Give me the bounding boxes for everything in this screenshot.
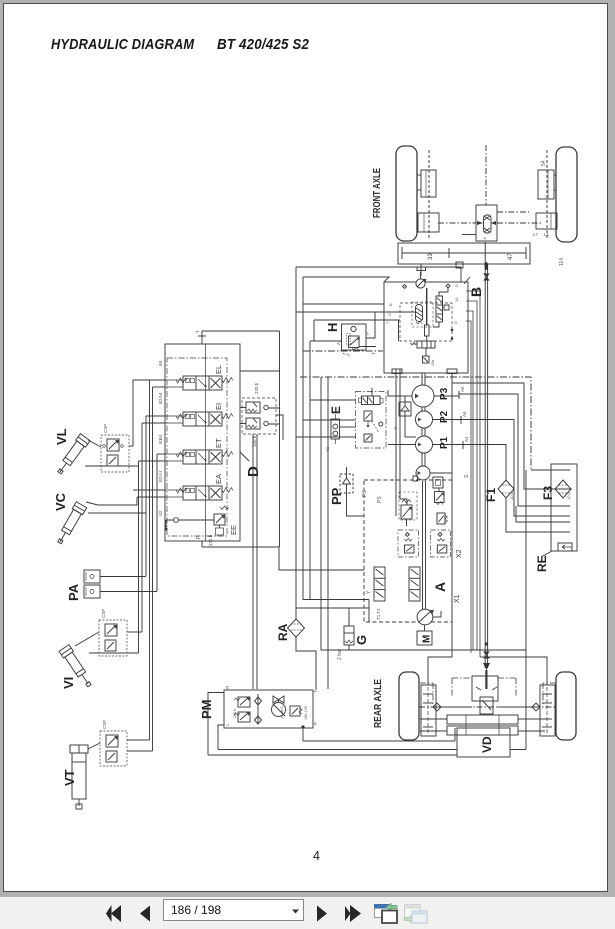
svg-text:A4: A4	[158, 392, 163, 398]
A pressure valve 1	[435, 488, 445, 505]
right bus: P1 line	[433, 445, 507, 481]
svg-text:ET: ET	[214, 438, 223, 448]
reservoir RE	[551, 464, 577, 551]
rear brake right	[540, 685, 555, 736]
PM side valve	[290, 706, 308, 720]
svg-text:P3: P3	[439, 387, 450, 400]
svg-text:X1: X1	[454, 594, 461, 603]
wire E to verticals	[296, 400, 356, 437]
brake valve PA	[84, 570, 100, 598]
port tick A5	[459, 386, 465, 399]
steering column dash-dot	[485, 145, 487, 205]
svg-text:G: G	[387, 313, 392, 316]
title	[51, 36, 194, 53]
svg-text:RA: RA	[276, 623, 290, 641]
E top spool valve	[359, 388, 384, 405]
previous-view icon (window with green left arrow)	[375, 904, 398, 924]
B port diamond left	[403, 285, 407, 289]
B junction dots	[451, 329, 454, 340]
D spool valve EI	[165, 403, 233, 426]
svg-text:A2: A2	[158, 510, 163, 516]
shock valve drop lines	[253, 434, 257, 689]
wire D top T to bus	[202, 331, 280, 547]
wire frame corner into tank	[531, 469, 570, 471]
D top port T	[195, 330, 206, 344]
E mid valve	[364, 411, 372, 428]
svg-text:VI: VI	[61, 677, 76, 689]
bottom supply line	[303, 728, 455, 741]
steering unit gerotor circle	[416, 272, 427, 288]
svg-text:L1: L1	[544, 232, 550, 237]
wire G line to B	[296, 311, 384, 313]
svg-text:VL: VL	[54, 428, 69, 445]
brake line from B port 4	[466, 321, 471, 653]
svg-text:54: 54	[541, 160, 547, 166]
frame dash-dot top	[300, 377, 531, 470]
B steering spool capsule	[416, 305, 423, 325]
PM motor circle	[272, 696, 286, 719]
svg-text:A: A	[336, 342, 341, 345]
D spool valve ET	[165, 438, 233, 464]
rear differential block	[472, 676, 498, 714]
B main pressure line	[425, 288, 430, 341]
svg-text:A4: A4	[464, 436, 469, 442]
wire VL rod side	[85, 465, 139, 467]
B sub dashed box	[412, 302, 433, 327]
manifold A dashed box	[364, 480, 452, 622]
svg-text:PS: PS	[377, 496, 383, 503]
wire E pilot to box	[340, 426, 356, 428]
front-left hub assembly	[417, 150, 439, 240]
rear brake feed right	[480, 657, 547, 685]
wire F1 to tank	[506, 498, 570, 532]
B port labels	[385, 284, 459, 324]
svg-text:B2: B2	[158, 476, 163, 482]
E lower valve	[364, 434, 372, 442]
wire CSP to bus (upper)	[129, 380, 165, 446]
wire VC piston side	[86, 497, 137, 505]
PM port labels	[225, 685, 318, 726]
svg-text:16 cm3: 16 cm3	[280, 707, 284, 719]
valve block E dash-dot box	[356, 392, 387, 449]
PM relief valve upper	[233, 697, 250, 718]
accumulator G	[337, 619, 354, 660]
right bus: P3 line	[434, 394, 570, 506]
steering unit B outer box	[384, 282, 468, 373]
wire B tank return to F3	[452, 373, 572, 489]
check valve PP	[340, 467, 353, 499]
check valve beside P2	[393, 402, 416, 437]
wire PA lower	[100, 588, 157, 592]
svg-text:F1: F1	[484, 488, 498, 502]
front axle link line left	[438, 223, 476, 235]
wire VI to CSP	[75, 632, 99, 646]
steering column to unit B	[417, 264, 426, 276]
viewer toolbar	[0, 897, 615, 929]
front steering cylinder block	[476, 205, 497, 241]
B bottom relief block	[410, 341, 435, 348]
A pressure valve 2	[437, 513, 448, 524]
B right spool valve	[433, 288, 448, 327]
svg-text:T: T	[371, 352, 376, 355]
A top tab	[413, 476, 418, 481]
motor M	[417, 625, 433, 645]
wheel rear-left	[399, 672, 419, 740]
wire P3 left port	[388, 390, 400, 396]
PM node dot	[301, 725, 304, 728]
page number 4	[313, 849, 320, 863]
shock valve pair beside D	[240, 382, 276, 447]
svg-text:A6: A6	[462, 411, 467, 417]
wire VI rod side	[89, 652, 139, 654]
pump P2	[416, 411, 433, 428]
svg-text:T: T	[313, 690, 318, 693]
svg-text:RE: RE	[535, 555, 549, 572]
svg-text:X2: X2	[456, 549, 463, 558]
VD right return up	[510, 650, 526, 750]
wire D bottom to A	[202, 547, 364, 570]
svg-text:EE: EE	[229, 525, 238, 535]
reach cylinder VI	[59, 645, 94, 689]
page number input box 186 / 198	[163, 899, 304, 921]
svg-text:160-190: 160-190	[304, 706, 308, 720]
top bus line 1	[296, 267, 461, 282]
wire shock valves to center	[276, 415, 283, 440]
D port labels left	[158, 360, 163, 516]
svg-text:PP: PP	[329, 487, 344, 505]
wire VC rod side	[88, 512, 146, 514]
svg-text:P2: P2	[439, 410, 450, 423]
svg-text:PS: PS	[362, 490, 368, 497]
next-view icon (disabled)	[404, 905, 427, 924]
B pilot box	[444, 305, 449, 310]
svg-text:CSP: CSP	[101, 609, 106, 618]
wire branch return to tank	[516, 506, 570, 522]
svg-text:D: D	[245, 466, 262, 477]
port tick A4	[463, 436, 469, 449]
E pilot dashed line	[372, 421, 379, 433]
drive shaft front-to-rear	[483, 242, 490, 689]
rear axle check left	[433, 703, 472, 711]
wire G to A	[348, 608, 350, 650]
bottom return loop inner	[218, 749, 457, 751]
wire CSP VI out	[127, 631, 142, 633]
wire EL to shock valves	[240, 371, 280, 424]
B G-port line	[384, 311, 415, 313]
svg-text:S: S	[464, 474, 470, 478]
frame dash-dot upper	[303, 350, 383, 352]
inner frame vertical	[327, 377, 329, 689]
next-page nav button	[317, 906, 327, 922]
wire H A-port	[310, 340, 342, 342]
svg-text:CSP: CSP	[102, 720, 107, 729]
E solenoid pilot block	[326, 414, 340, 452]
svg-text:R: R	[225, 685, 230, 689]
svg-text:B4: B4	[158, 360, 163, 366]
rear brake feed left	[428, 657, 452, 685]
pump P1	[416, 436, 433, 453]
safety valve CSP (VT)	[100, 720, 127, 766]
svg-text:PA: PA	[66, 583, 81, 601]
svg-text:EL: EL	[214, 365, 223, 374]
wire PA upper	[100, 576, 146, 578]
svg-text:114: 114	[559, 258, 565, 266]
brake line from B port 2	[466, 301, 477, 650]
svg-text:X1: X1	[454, 296, 459, 302]
svg-text:B: B	[388, 303, 393, 306]
lift cylinder VL	[55, 434, 91, 477]
svg-text:VD: VD	[480, 736, 494, 753]
svg-text:FRONT AXLE: FRONT AXLE	[372, 168, 383, 218]
valve bank D inner dashed box	[167, 358, 227, 536]
svg-text:M: M	[422, 635, 433, 643]
left bundle to D ports	[133, 380, 165, 497]
A reducing valve left	[399, 492, 417, 526]
tilt cylinder VC	[54, 502, 86, 546]
wire H T-port	[360, 346, 377, 348]
svg-text:VC: VC	[53, 492, 68, 511]
front axle link line right	[497, 212, 541, 223]
svg-text:T: T	[385, 321, 390, 324]
B T-port line	[314, 320, 400, 341]
svg-text:PM: PM	[199, 700, 214, 720]
center vertical RA line	[296, 267, 316, 690]
D drain line with orifice	[165, 518, 215, 531]
svg-text:47: 47	[508, 253, 514, 260]
port tick A6	[461, 411, 467, 424]
svg-text:T1 T2: T1 T2	[376, 608, 381, 620]
priority valve H body	[336, 326, 376, 356]
wire B port to check valve	[404, 396, 406, 402]
safety valve CSP (VI)	[99, 609, 127, 656]
pump shafts	[422, 373, 425, 466]
rear steer cylinder	[420, 715, 545, 735]
rear axle check right	[498, 703, 540, 711]
center vertical 2	[303, 277, 369, 622]
A brake valve left	[398, 530, 419, 557]
svg-text:REAR AXLE: REAR AXLE	[373, 679, 384, 728]
svg-text:P: P	[196, 535, 202, 539]
svg-text:P: P	[365, 332, 370, 335]
svg-text:8: 8	[482, 237, 487, 240]
svg-text:D: D	[454, 284, 459, 287]
A spool valve right	[409, 567, 420, 601]
svg-text:A5: A5	[460, 386, 465, 392]
svg-text:A: A	[432, 582, 448, 592]
wire PP down	[347, 499, 365, 516]
center vertical 3	[309, 341, 311, 600]
first-page nav button	[106, 905, 121, 922]
top bus line 2	[303, 277, 389, 282]
svg-text:43a: 43a	[431, 359, 435, 366]
wheel front-left	[396, 146, 417, 241]
svg-text:10 µ: 10 µ	[566, 491, 571, 500]
valve bank D outer box	[165, 344, 240, 541]
svg-text:33: 33	[428, 253, 434, 260]
wire PM P down	[302, 728, 304, 741]
svg-text:Y: Y	[366, 590, 372, 594]
last-page nav button	[345, 905, 361, 922]
wire to G and A	[296, 607, 369, 609]
svg-text:D: D	[453, 321, 458, 324]
label D	[240, 452, 262, 477]
front-right hub assembly	[536, 150, 565, 266]
charge pump outlet line	[430, 383, 452, 657]
filter RA	[288, 619, 305, 637]
B bottom tabs	[392, 369, 457, 374]
rear frame dash-dot steps	[420, 678, 556, 704]
A drive shaft	[423, 481, 426, 609]
A spool valve left	[366, 567, 385, 601]
hydrostatic pump	[417, 609, 441, 625]
D pressure rail	[205, 344, 207, 541]
filter F3	[555, 480, 571, 500]
B drain orifice	[423, 348, 436, 366]
wire CSP VT lower out	[127, 750, 153, 752]
B inner dashed box	[400, 303, 452, 341]
svg-text:CSP: CSP	[103, 424, 108, 433]
svg-text:F3: F3	[541, 486, 555, 500]
svg-text:B3: B3	[158, 398, 163, 404]
brake line from B port 1	[466, 291, 480, 657]
D spool valve EA	[165, 474, 233, 500]
B port diamond right	[446, 284, 450, 288]
machine body box	[321, 377, 526, 650]
PM relief valve lower	[234, 712, 250, 722]
svg-text:P1: P1	[439, 436, 450, 449]
bottom return loop outer	[208, 754, 457, 756]
rear axle center line	[419, 706, 556, 708]
wire PM L left-down	[218, 725, 224, 750]
svg-text:E: E	[329, 406, 343, 414]
D spool valve EL	[165, 365, 233, 390]
svg-text:10 µ: 10 µ	[509, 491, 514, 500]
pump P3	[400, 385, 434, 407]
B B-port line	[303, 303, 384, 305]
VD box	[457, 728, 510, 757]
front tie-rod dimension bar	[398, 232, 550, 268]
auxiliary cylinder VT	[70, 745, 88, 809]
svg-text:VT: VT	[62, 769, 77, 786]
wire PM R left-down	[208, 693, 224, 756]
A solenoid box	[433, 477, 443, 488]
wire CSP VT upper out	[127, 739, 150, 741]
svg-text:P: P	[313, 722, 318, 725]
wheel rear-right	[556, 672, 576, 740]
pump motor unit PM box	[224, 690, 313, 728]
svg-text:B1: B1	[158, 438, 163, 444]
brake line from B port 3	[466, 311, 473, 650]
dropdown arrow of page box	[292, 910, 299, 914]
svg-text:H: H	[325, 323, 340, 332]
safety valve CSP (VL)	[101, 424, 129, 472]
right bus: P2 line	[433, 420, 571, 517]
rear brake left	[421, 685, 436, 736]
label RE with leader	[535, 551, 552, 572]
wire H P-port up	[366, 312, 375, 338]
wire VT to CSP	[88, 743, 100, 749]
svg-text:375 b: 375 b	[208, 534, 213, 546]
svg-text:B: B	[468, 287, 484, 297]
wheel front-right	[556, 147, 577, 242]
svg-text:L7: L7	[533, 232, 539, 237]
svg-text:G: G	[354, 635, 369, 645]
diff input clamps	[476, 687, 497, 690]
priority valve H box	[342, 324, 367, 350]
wire B tank port down	[396, 369, 407, 516]
svg-text:A1: A1	[158, 470, 163, 476]
wire VL to CSP	[88, 440, 101, 447]
prev-page nav button	[140, 906, 150, 922]
PM check diamonds	[255, 694, 262, 724]
D bottom port P	[196, 535, 202, 547]
svg-text:EA: EA	[214, 474, 223, 484]
E pilot orifice circle	[379, 422, 383, 426]
svg-text:T: T	[195, 330, 200, 333]
D relief valve EE	[208, 506, 238, 546]
svg-text:L: L	[225, 723, 230, 726]
svg-text:230 b: 230 b	[254, 382, 259, 394]
wire P1 left port	[388, 444, 416, 446]
left wire bundle verticals	[139, 380, 158, 751]
charge pump	[416, 466, 430, 480]
svg-text:X: X	[393, 427, 398, 430]
A brake valve right	[431, 530, 451, 557]
svg-text:EI: EI	[214, 403, 223, 410]
filter F1	[498, 480, 514, 500]
